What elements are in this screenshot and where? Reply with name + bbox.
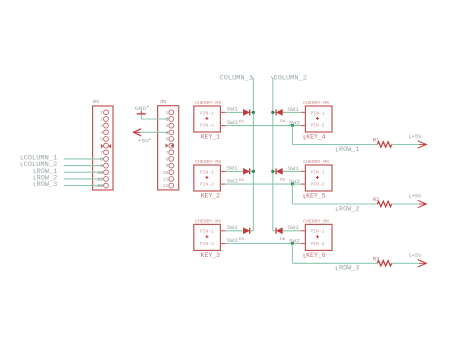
svg-text:+5V: +5V bbox=[412, 133, 423, 140]
svg-text:KEY_6: KEY_6 bbox=[306, 252, 326, 259]
switch KEY_3 (CHERRY-MX) bbox=[194, 218, 222, 250]
svg-text:2: 2 bbox=[100, 117, 103, 123]
wire KEY_4 SW1 to D4 bbox=[283, 111, 301, 113]
wire COLUMN_2 to JP1 pin 9 bbox=[64, 165, 104, 167]
supply +5V (row 1) bbox=[410, 133, 427, 148]
pin label SW1 (KEY_2) bbox=[226, 166, 238, 172]
label KEY_4 bbox=[304, 134, 326, 141]
svg-text:11: 11 bbox=[163, 177, 169, 183]
svg-text:PIN-1: PIN-1 bbox=[311, 229, 325, 235]
junction COLUMN_1 / D1 bbox=[252, 111, 255, 114]
label KEY_3 bbox=[201, 252, 221, 259]
wire ROW_3 down bbox=[291, 244, 293, 264]
svg-text:PIN-2: PIN-2 bbox=[200, 123, 214, 129]
diode D3 bbox=[243, 228, 249, 234]
svg-text:CHERRY-MX: CHERRY-MX bbox=[303, 218, 329, 224]
wire SW2 bus row 2 bbox=[226, 183, 301, 185]
net label ROW_2 bbox=[34, 175, 57, 182]
wire SW2 bus row 1 bbox=[226, 125, 301, 127]
JP2 pin numbers 2 and 4 (over wires) bbox=[166, 117, 169, 136]
svg-text:6: 6 bbox=[100, 143, 103, 149]
net label COLUMN_2 bbox=[271, 74, 307, 81]
svg-text:12: 12 bbox=[163, 183, 169, 189]
svg-text:2: 2 bbox=[166, 117, 169, 123]
svg-text:ROW_2: ROW_2 bbox=[339, 205, 360, 212]
wire R2 to +5V bbox=[392, 203, 419, 205]
pin label SW2 (KEY_5) bbox=[289, 179, 301, 185]
net label ROW_3 bbox=[34, 181, 57, 188]
svg-text:COLUMN_2: COLUMN_2 bbox=[273, 74, 307, 81]
svg-text:D4: D4 bbox=[280, 120, 286, 124]
net label ROW_1 bbox=[34, 168, 57, 175]
svg-text:CHERRY-MX: CHERRY-MX bbox=[303, 100, 329, 106]
pin label SW2 (KEY_3) bbox=[227, 238, 239, 244]
svg-text:11: 11 bbox=[97, 177, 103, 183]
wire R3 to +5V bbox=[392, 262, 419, 264]
svg-text:PIN-1: PIN-1 bbox=[311, 110, 325, 116]
junction COLUMN_1 / D2 bbox=[252, 170, 255, 173]
junction COLUMN_2 / D5 bbox=[271, 170, 274, 173]
svg-text:3: 3 bbox=[100, 123, 103, 129]
wire D2 to COLUMN_1 bbox=[250, 170, 253, 172]
wire ROW_2 to R2 bbox=[292, 203, 377, 205]
svg-text:D2: D2 bbox=[239, 179, 245, 183]
supply +5V (row 2) bbox=[410, 193, 427, 208]
svg-text:CHERRY-MX: CHERRY-MX bbox=[195, 100, 221, 106]
KEY_4 pin SW2 stub bbox=[301, 125, 306, 127]
net COLUMN_2 (vertical line) bbox=[272, 78, 274, 231]
svg-text:PIN-2: PIN-2 bbox=[200, 241, 214, 247]
svg-text:9: 9 bbox=[100, 163, 103, 169]
svg-text:PIN-1: PIN-1 bbox=[200, 169, 214, 175]
resistor R1 bbox=[377, 142, 391, 147]
svg-text:10: 10 bbox=[163, 170, 169, 176]
net label ROW_2 bbox=[336, 205, 359, 212]
JP2 pin 6 marker bbox=[165, 144, 173, 148]
wire R1 to +5V bbox=[392, 144, 419, 146]
svg-text:10: 10 bbox=[97, 170, 103, 176]
wire D4 to COLUMN_2 bbox=[273, 111, 276, 113]
wire D5 to COLUMN_2 bbox=[273, 170, 276, 172]
svg-text:PIN-2: PIN-2 bbox=[311, 182, 325, 188]
KEY_2 pin SW1 stub bbox=[220, 170, 225, 172]
wire SW2 bus row 3 bbox=[226, 243, 301, 245]
svg-text:R2: R2 bbox=[373, 197, 380, 203]
svg-text:+5V: +5V bbox=[138, 138, 150, 145]
label D2 bbox=[239, 179, 245, 183]
wire D1 to COLUMN_1 bbox=[250, 111, 253, 113]
svg-text:CHERRY-MX: CHERRY-MX bbox=[303, 159, 329, 165]
supply +5V (row 3) bbox=[410, 252, 427, 267]
svg-text:KEY_1: KEY_1 bbox=[201, 134, 221, 141]
svg-text:KEY_5: KEY_5 bbox=[306, 193, 326, 200]
KEY_5 pin SW2 stub bbox=[301, 183, 306, 185]
wire KEY_6 SW1 to D6 bbox=[283, 230, 301, 232]
svg-text:KEY_3: KEY_3 bbox=[201, 252, 221, 259]
svg-text:7: 7 bbox=[166, 150, 169, 156]
KEY_1 pin SW2 stub bbox=[220, 125, 225, 127]
label JP2 bbox=[159, 100, 166, 105]
svg-text:5: 5 bbox=[166, 137, 169, 143]
label D4 bbox=[280, 120, 286, 124]
ground GND bbox=[135, 105, 149, 114]
net label ROW_3 bbox=[336, 265, 359, 272]
svg-text:1: 1 bbox=[166, 110, 169, 116]
svg-text:6: 6 bbox=[166, 143, 169, 149]
pin label SW1 (KEY_4) bbox=[288, 107, 300, 113]
label R3 bbox=[373, 256, 380, 262]
pin label SW1 (KEY_5) bbox=[288, 166, 300, 172]
JP1 pin numbers 1-12 bbox=[97, 110, 103, 189]
wire GND to JP2 pin 2 bbox=[141, 115, 169, 120]
wire ROW_1 to R1 bbox=[292, 144, 377, 146]
wire COLUMN_1 to JP1 pin 8 bbox=[64, 158, 104, 160]
label D3 bbox=[239, 238, 245, 242]
KEY_6 pin SW2 stub bbox=[301, 243, 306, 245]
svg-text:PIN-2: PIN-2 bbox=[311, 241, 325, 247]
KEY_3 pin SW1 stub bbox=[220, 230, 225, 232]
label D6 bbox=[280, 238, 286, 242]
junction ROW_1 tap bbox=[291, 124, 294, 127]
svg-text:PIN-1: PIN-1 bbox=[200, 229, 214, 235]
svg-text:JP2: JP2 bbox=[159, 100, 166, 105]
wire KEY_3 SW1 to D3 bbox=[226, 230, 244, 232]
svg-text:KEY_4: KEY_4 bbox=[306, 134, 326, 141]
pin label SW1 (KEY_3) bbox=[226, 225, 238, 231]
svg-text:D1: D1 bbox=[239, 120, 245, 124]
JP1 pin numbers 8-12 (over wires) bbox=[97, 157, 103, 190]
diode D2 bbox=[243, 168, 249, 174]
wire KEY_2 SW1 to D2 bbox=[226, 170, 244, 172]
svg-text:ROW_1: ROW_1 bbox=[339, 146, 360, 153]
svg-text:8: 8 bbox=[166, 157, 169, 163]
junction ROW_3 tap bbox=[291, 242, 294, 245]
svg-text:5: 5 bbox=[100, 137, 103, 143]
wire KEY_5 SW1 to D5 bbox=[283, 170, 301, 172]
wire ROW_3 to JP1 pin 12 bbox=[64, 185, 104, 187]
pin label SW1 (KEY_1) bbox=[226, 107, 238, 113]
wire ROW_2 to JP1 pin 11 bbox=[64, 178, 104, 180]
pin label SW2 (KEY_1) bbox=[227, 120, 239, 126]
diode D6 bbox=[276, 228, 282, 234]
label KEY_1 bbox=[201, 134, 221, 141]
svg-text:ROW_3: ROW_3 bbox=[37, 181, 58, 188]
resistor R2 bbox=[377, 201, 391, 206]
KEY_2 pin SW2 stub bbox=[220, 183, 225, 185]
KEY_3 pin SW2 stub bbox=[220, 243, 225, 245]
wire D6 to COLUMN_2 bbox=[273, 230, 276, 232]
svg-text:COLUMN_1: COLUMN_1 bbox=[220, 74, 254, 81]
switch KEY_4 (CHERRY-MX) bbox=[303, 100, 332, 132]
switch KEY_5 (CHERRY-MX) bbox=[303, 159, 332, 191]
svg-text:4: 4 bbox=[100, 130, 103, 136]
svg-text:7: 7 bbox=[100, 150, 103, 156]
wire ROW_3 to R3 bbox=[292, 262, 377, 264]
label D1 bbox=[239, 120, 245, 124]
label KEY_5 bbox=[304, 193, 326, 200]
pin label SW1 (KEY_6) bbox=[288, 225, 300, 231]
KEY_6 pin SW1 stub bbox=[301, 230, 306, 232]
svg-text:9: 9 bbox=[166, 163, 169, 169]
svg-text:D3: D3 bbox=[239, 238, 245, 242]
svg-text:KEY_2: KEY_2 bbox=[201, 193, 221, 200]
svg-text:JP1: JP1 bbox=[92, 100, 99, 105]
switch KEY_1 (CHERRY-MX) bbox=[194, 100, 222, 132]
switch KEY_2 (CHERRY-MX) bbox=[194, 159, 222, 191]
svg-text:SW1: SW1 bbox=[226, 225, 238, 231]
switch KEY_6 (CHERRY-MX) bbox=[303, 218, 332, 250]
svg-text:8: 8 bbox=[100, 157, 103, 163]
svg-text:PIN-1: PIN-1 bbox=[311, 169, 325, 175]
svg-text:+5V: +5V bbox=[412, 193, 423, 200]
svg-text:R1: R1 bbox=[373, 138, 380, 144]
svg-text:4: 4 bbox=[166, 130, 169, 136]
KEY_4 pin SW1 stub bbox=[301, 111, 306, 113]
svg-text:R3: R3 bbox=[373, 256, 380, 262]
label JP1 bbox=[92, 100, 99, 105]
connector JP1 bbox=[93, 106, 113, 190]
net label COLUMN_1 bbox=[220, 74, 254, 81]
wire D3 to COLUMN_1 bbox=[250, 230, 253, 232]
KEY_1 pin SW1 stub bbox=[220, 111, 225, 113]
junction COLUMN_2 / D4 bbox=[271, 111, 274, 114]
net label COLUMN_1 bbox=[21, 155, 57, 162]
svg-text:12: 12 bbox=[97, 183, 103, 189]
pin label SW2 (KEY_6) bbox=[289, 239, 301, 245]
net label COLUMN_2 bbox=[21, 161, 57, 168]
svg-text:SW1: SW1 bbox=[226, 166, 238, 172]
label D5 bbox=[280, 179, 286, 183]
svg-text:CHERRY-MX: CHERRY-MX bbox=[195, 159, 221, 165]
svg-text:PIN-2: PIN-2 bbox=[311, 123, 325, 129]
junction ROW_2 tap bbox=[291, 183, 294, 186]
label R1 bbox=[373, 138, 380, 144]
svg-text:D5: D5 bbox=[280, 179, 286, 183]
net label ROW_1 bbox=[336, 146, 359, 153]
svg-text:CHERRY-MX: CHERRY-MX bbox=[195, 218, 221, 224]
wire ROW_1 down bbox=[291, 126, 293, 145]
pin label SW2 (KEY_2) bbox=[227, 179, 239, 185]
pin label SW2 (KEY_4) bbox=[289, 121, 301, 127]
JP1 pin 6 marker bbox=[101, 144, 111, 148]
svg-text:PIN-2: PIN-2 bbox=[200, 182, 214, 188]
diode D4 bbox=[276, 109, 282, 115]
wire ROW_2 down bbox=[291, 184, 293, 204]
KEY_5 pin SW1 stub bbox=[301, 170, 306, 172]
net COLUMN_1 (vertical line) bbox=[252, 78, 254, 231]
supply +5V (JP2) bbox=[134, 129, 151, 145]
wire ROW_1 to JP1 pin 10 bbox=[64, 171, 104, 173]
label KEY_6 bbox=[304, 252, 326, 259]
JP2 pin numbers 1-12 bbox=[163, 110, 169, 189]
label KEY_2 bbox=[201, 193, 221, 200]
wire KEY_1 SW1 to D1 bbox=[226, 111, 244, 113]
connector JP2 bbox=[158, 106, 179, 190]
svg-text:1: 1 bbox=[100, 110, 103, 116]
svg-text:D6: D6 bbox=[280, 238, 286, 242]
svg-text:SW1: SW1 bbox=[226, 107, 238, 113]
label R2 bbox=[373, 197, 380, 203]
resistor R3 bbox=[377, 261, 391, 266]
wire +5V to JP2 pin 4 bbox=[141, 131, 169, 133]
diode D1 bbox=[243, 109, 249, 115]
svg-text:ROW_3: ROW_3 bbox=[339, 265, 360, 272]
svg-text:3: 3 bbox=[166, 123, 169, 129]
svg-text:+5V: +5V bbox=[412, 252, 423, 259]
diode D5 bbox=[276, 168, 282, 174]
svg-text:PIN-1: PIN-1 bbox=[200, 110, 214, 116]
